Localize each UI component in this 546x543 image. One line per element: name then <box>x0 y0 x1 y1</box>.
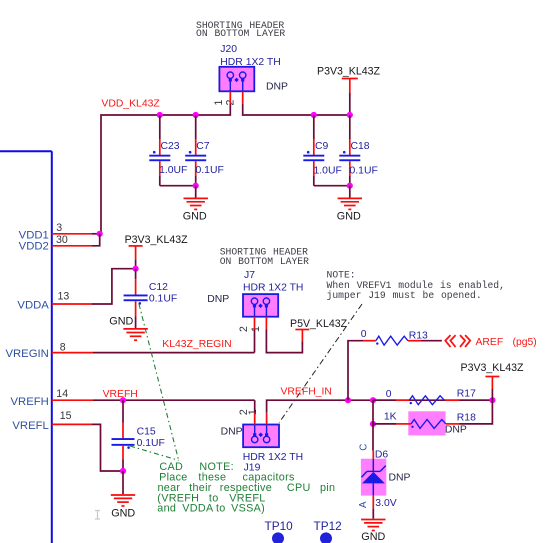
svg-text:VREGIN: VREGIN <box>5 348 48 360</box>
junction VREFH/C15 <box>120 397 126 403</box>
junction on P3V3 bus at C18 <box>347 112 353 118</box>
svg-text:GND: GND <box>111 507 135 519</box>
svg-text:(pg5): (pg5) <box>513 337 537 348</box>
wire J19 pin2 to VREFH <box>254 400 256 413</box>
svg-text:HDR 1X2 TH: HDR 1X2 TH <box>243 283 303 294</box>
svg-text:AREF: AREF <box>476 337 504 348</box>
svg-text:P3V3_KL43Z: P3V3_KL43Z <box>461 362 525 374</box>
resistor R17 0 <box>373 388 492 404</box>
ground (C15) <box>111 495 136 519</box>
J20 pin 2 red pin <box>242 91 244 104</box>
pin VDD2 (30) <box>19 234 100 253</box>
svg-text:8: 8 <box>60 341 66 353</box>
capacitor C15 0.1UF <box>112 400 165 471</box>
svg-text:HDR 1X2 TH: HDR 1X2 TH <box>243 452 303 463</box>
ground (C9/C18) <box>337 198 362 222</box>
J7 pin 2 red pin <box>254 317 256 330</box>
svg-text:C: C <box>358 444 369 451</box>
ground (C7/C23) <box>183 198 208 222</box>
cad note leader line from C15 <box>130 446 179 460</box>
power P5V_KL43Z <box>290 318 348 341</box>
svg-text:R17: R17 <box>457 388 476 399</box>
junction R13 drop <box>345 397 351 403</box>
svg-text:C12: C12 <box>149 282 168 293</box>
svg-text:A: A <box>358 501 369 508</box>
svg-text:GND: GND <box>361 531 385 543</box>
svg-text:VREFH_IN: VREFH_IN <box>281 386 332 397</box>
svg-text:CPU: CPU <box>287 482 311 494</box>
note: shorting header on bottom layer (J20) <box>196 20 285 39</box>
cad note text <box>157 461 335 514</box>
wire R18 to D6 <box>372 424 374 451</box>
svg-text:ON BOTTOM LAYER: ON BOTTOM LAYER <box>220 256 309 267</box>
svg-text:VREFH: VREFH <box>11 396 49 408</box>
svg-text:1.0UF: 1.0UF <box>314 165 342 176</box>
wire to gnd <box>195 186 197 198</box>
svg-text:DNP: DNP <box>221 427 243 438</box>
svg-text:VDDA: VDDA <box>17 299 49 311</box>
test point TP10 <box>265 519 294 543</box>
note: NOTE when VREFV1 <box>327 269 505 301</box>
svg-text:to: to <box>216 502 226 514</box>
ground (D6) <box>361 520 385 543</box>
svg-text:jumper J19 must be opened.: jumper J19 must be opened. <box>327 290 482 301</box>
svg-text:0.1UF: 0.1UF <box>350 165 378 176</box>
J7 pin 1 red pin <box>265 317 267 330</box>
pin VREGIN (8) <box>5 341 254 360</box>
svg-text:KL43Z_REGIN: KL43Z_REGIN <box>162 339 231 350</box>
svg-text:NOTE:: NOTE: <box>327 269 356 280</box>
svg-text:P3V3_KL43Z: P3V3_KL43Z <box>125 234 189 246</box>
svg-text:P5V_KL43Z: P5V_KL43Z <box>290 318 348 330</box>
svg-text:GND: GND <box>337 211 361 223</box>
svg-text:TP12: TP12 <box>314 519 342 533</box>
svg-text:VREFL: VREFL <box>12 420 48 432</box>
svg-text:C15: C15 <box>137 426 156 437</box>
svg-text:DNP: DNP <box>445 425 467 436</box>
zener diode D6 3.0V DNP <box>361 450 411 510</box>
connector J19 HDR 1X2 TH <box>243 425 303 474</box>
svg-text:13: 13 <box>58 290 70 302</box>
junction R17 right / P3V3 <box>489 397 495 403</box>
wire bus down to R18 <box>372 400 374 424</box>
wire C9/C18 ground link <box>314 185 350 187</box>
svg-text:J20: J20 <box>220 44 237 55</box>
note leader dash-dot line <box>279 304 362 423</box>
junction VDD1 <box>97 231 103 237</box>
junction C12 top <box>133 266 139 272</box>
wire to gnd <box>349 186 351 198</box>
svg-text:GND: GND <box>183 211 207 223</box>
svg-text:30: 30 <box>56 234 68 246</box>
wire to gnd <box>122 471 124 494</box>
svg-text:C7: C7 <box>196 141 210 152</box>
resistor R18 1K DNP <box>373 400 492 435</box>
svg-text:0: 0 <box>361 329 367 340</box>
svg-text:TP10: TP10 <box>265 519 294 533</box>
wire P3V3 top bus (J20 pin2 to P3V3) <box>243 104 350 115</box>
capacitor C12 0.1UF <box>124 269 178 328</box>
svg-text:14: 14 <box>56 388 68 400</box>
connector J20 HDR 1X2 TH <box>219 44 280 91</box>
svg-text:C18: C18 <box>351 141 370 152</box>
svg-text:1: 1 <box>213 99 225 105</box>
svg-text:0: 0 <box>386 389 392 400</box>
junction on P3V3 bus at C9 <box>311 112 317 118</box>
svg-text:0.1UF: 0.1UF <box>196 165 224 176</box>
svg-text:P3V3_KL43Z: P3V3_KL43Z <box>317 66 381 78</box>
svg-text:and: and <box>157 502 176 514</box>
pin VREFH (14) <box>11 388 255 408</box>
svg-text:0.1UF: 0.1UF <box>149 293 177 304</box>
wire C23/C7 ground link <box>160 185 196 187</box>
wire VDD_KL43Z bus <box>101 104 230 234</box>
svg-text:J19: J19 <box>244 462 261 473</box>
svg-text:1: 1 <box>250 326 262 332</box>
capacitor C9 1.0UF <box>303 115 341 186</box>
svg-text:GND: GND <box>109 315 133 327</box>
J19 pin 1 red pin <box>266 413 268 425</box>
junction C7 gnd <box>193 183 199 189</box>
CPU block edge <box>0 151 52 543</box>
J19 pin 2 red pin <box>254 413 256 425</box>
svg-text:15: 15 <box>60 410 72 422</box>
junction on VDD bus at C23 <box>157 112 163 118</box>
capacitor C18 0.1UF <box>339 115 377 186</box>
junction on VDD bus at C7 <box>193 112 199 118</box>
resistor R13 0 <box>361 329 442 345</box>
svg-text:1K: 1K <box>384 411 397 422</box>
test point TP12 <box>314 519 342 543</box>
svg-text:C9: C9 <box>315 141 329 152</box>
wire J7 pin2 to VREGIN <box>254 330 256 353</box>
label AREF (pg5) <box>476 337 537 348</box>
stray cursor mark <box>95 511 100 520</box>
svg-text:VDD_KL43Z: VDD_KL43Z <box>101 99 160 110</box>
svg-text:VSSA): VSSA) <box>231 502 265 514</box>
note: shorting header on bottom layer (J7) <box>220 246 309 266</box>
power P3V3_KL43Z (C12) <box>125 234 189 269</box>
svg-text:ON BOTTOM LAYER: ON BOTTOM LAYER <box>196 28 285 39</box>
wire J19 pin1 to VREFH_IN bus <box>267 400 493 413</box>
svg-text:C23: C23 <box>161 141 180 152</box>
svg-text:DNP: DNP <box>389 472 411 483</box>
svg-text:VREFH: VREFH <box>103 389 138 400</box>
cad note leader line from C12 <box>139 304 179 460</box>
junction C15 bottom <box>120 468 126 474</box>
wire R13 drop <box>348 341 363 401</box>
offpage connector AREF <box>445 335 470 347</box>
svg-text:2: 2 <box>238 326 250 332</box>
power P3V3_KL43Z (right) <box>461 362 525 400</box>
svg-text:3: 3 <box>56 222 62 234</box>
svg-text:pin: pin <box>320 482 335 494</box>
svg-text:3.0V: 3.0V <box>375 498 396 509</box>
junction C18 gnd <box>347 183 353 189</box>
junction R17/R18 left <box>370 397 376 403</box>
svg-text:1: 1 <box>247 409 259 415</box>
svg-text:0.1UF: 0.1UF <box>137 438 165 449</box>
J20 pin 1 red pin <box>229 91 231 104</box>
capacitor C7 0.1UF <box>185 115 224 186</box>
ground (C12) <box>109 315 148 340</box>
svg-text:VDDA: VDDA <box>182 502 214 514</box>
svg-text:R18: R18 <box>457 412 476 423</box>
junction R18 left <box>370 421 376 427</box>
power P3V3_KL43Z (top) <box>317 66 381 115</box>
svg-text:J7: J7 <box>244 270 255 281</box>
svg-text:DNP: DNP <box>266 82 288 93</box>
wire J7 pin1 to P5V <box>266 330 302 353</box>
svg-text:VDD2: VDD2 <box>19 241 49 253</box>
svg-text:1.0UF: 1.0UF <box>159 165 187 176</box>
pin VREFL (15) <box>12 410 123 471</box>
wire D6 to gnd <box>372 508 374 518</box>
svg-text:DNP: DNP <box>207 294 229 305</box>
pin VDD1 (3) <box>19 222 100 242</box>
pin VDDA (13) <box>17 269 135 312</box>
connector J7 HDR 1X2 TH <box>243 270 303 317</box>
capacitor C23 1.0UF <box>149 115 187 186</box>
